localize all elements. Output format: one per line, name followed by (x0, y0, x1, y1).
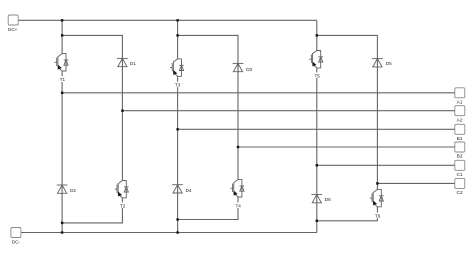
port C2 (455, 178, 465, 196)
junction dot rail leg2 (176, 19, 178, 21)
svg-text:A2: A2 (457, 117, 463, 123)
junction dot branch leg2 (176, 34, 178, 36)
svg-text:D5: D5 (386, 61, 392, 66)
junction dot node A2 (121, 110, 123, 112)
junction dot node A1 (61, 92, 63, 94)
wire D5 column down to T6 (376, 59, 378, 190)
wire bottom DC- rail (21, 232, 317, 234)
port A1 (455, 88, 465, 106)
junction dot node B1 (176, 128, 178, 130)
junction dot joiner leg3 (316, 220, 318, 222)
wire T6 bottom joiner (317, 207, 378, 221)
svg-text:C1: C1 (457, 172, 463, 178)
igbt T1 (55, 54, 69, 83)
wire output C2 (377, 182, 455, 184)
svg-text:T1: T1 (60, 77, 66, 82)
wire leg2 to bottom rail (177, 220, 179, 233)
junction dot node B2 (237, 146, 239, 148)
wire branch leg2 to D3 (178, 35, 238, 63)
wire T3 column down through D4 (177, 76, 179, 219)
svg-text:B2: B2 (457, 154, 463, 160)
svg-text:D1: D1 (130, 61, 136, 66)
svg-text:T3: T3 (175, 83, 181, 88)
wire branch leg3 to D5 (317, 35, 378, 58)
svg-text:DC-: DC- (12, 239, 21, 244)
port C1 (455, 160, 465, 178)
wire output B1 (178, 128, 455, 130)
wire leg2 top vertical (177, 20, 179, 59)
svg-text:B1: B1 (457, 136, 463, 142)
junction dot node C2 (376, 182, 378, 184)
wire D1 column down to T2 (121, 58, 123, 180)
wire output C1 (317, 164, 455, 166)
svg-text:D3: D3 (246, 67, 252, 72)
svg-text:D2: D2 (70, 188, 76, 193)
port DC+ (8, 15, 18, 32)
igbt T2 (115, 181, 129, 209)
igbt T5 (309, 51, 323, 79)
svg-text:A1: A1 (457, 99, 463, 105)
diode D4 (172, 185, 192, 193)
wire T2 bottom joiner (62, 198, 122, 223)
wire leg1 to bottom rail (61, 223, 63, 233)
svg-text:T2: T2 (120, 203, 126, 208)
junction dot branch leg1 (61, 34, 63, 36)
wire T1 column down through D2 (61, 71, 63, 223)
igbt T6 (370, 189, 384, 218)
diode D6 (311, 195, 331, 203)
wire output B2 (238, 146, 455, 148)
port A2 (455, 106, 465, 124)
igbt T4 (230, 180, 244, 209)
wire T5 column down through D6 (316, 68, 318, 221)
junction dot bottom rail leg2 (176, 231, 178, 233)
junction dot bottom rail leg1 (61, 231, 63, 233)
wire branch leg1 to D1 (62, 35, 122, 58)
svg-text:C2: C2 (457, 190, 463, 196)
diode D3 (233, 63, 253, 71)
wire D3 column down to T4 (237, 63, 239, 179)
svg-text:T6: T6 (375, 213, 381, 218)
junction dot rail leg1 (61, 19, 63, 21)
svg-text:T5: T5 (315, 73, 321, 78)
port DC- (11, 228, 21, 245)
wire leg3 to bottom rail (316, 221, 318, 233)
svg-text:D4: D4 (186, 188, 192, 193)
wire output A1 (62, 92, 455, 94)
junction dot branch leg3 (316, 34, 318, 36)
wire T4 bottom joiner (178, 197, 238, 220)
svg-text:D6: D6 (325, 197, 331, 202)
wire top DC+ rail (19, 19, 317, 21)
junction dot node C1 (316, 164, 318, 166)
svg-text:DC+: DC+ (8, 27, 18, 32)
svg-text:T4: T4 (236, 203, 242, 208)
wire leg1 top vertical (61, 20, 63, 53)
junction dot joiner leg1 (61, 222, 63, 224)
diode D5 (372, 59, 392, 67)
port B2 (455, 142, 465, 160)
junction dot joiner leg2 (176, 218, 178, 220)
wire leg3 top vertical (316, 20, 318, 50)
port B1 (455, 124, 465, 142)
wire output A2 (122, 110, 455, 112)
diode D2 (57, 185, 77, 193)
diode D1 (117, 58, 136, 66)
igbt T3 (170, 59, 184, 88)
